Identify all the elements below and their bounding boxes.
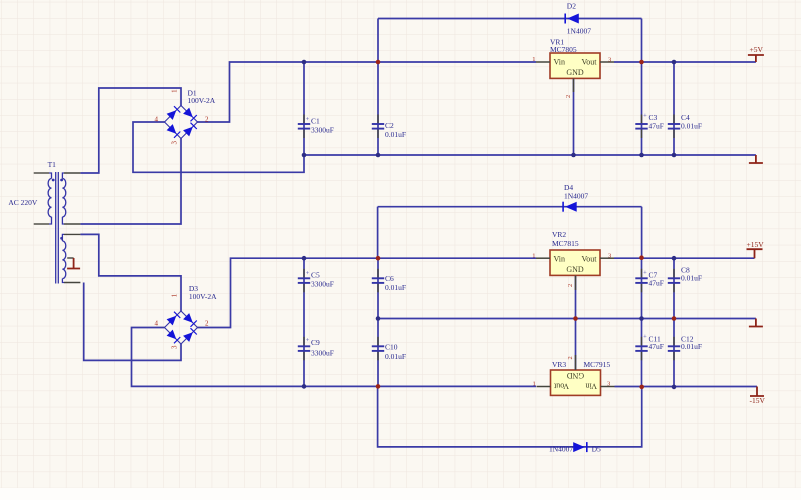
wire mid GND rail <box>378 318 756 320</box>
capacitor C7 47uF <box>635 269 647 293</box>
svg-text:+: + <box>643 112 647 119</box>
svg-text:3: 3 <box>607 380 610 387</box>
svg-text:MC7805: MC7805 <box>550 45 577 54</box>
diode D2 1N4007 <box>565 14 579 24</box>
capacitor C8 0.01uF <box>668 269 680 293</box>
svg-text:D5: D5 <box>592 444 601 453</box>
junction C7/C11 on mid GND rail <box>639 316 644 321</box>
svg-text:+5V: +5V <box>750 45 764 54</box>
diode D5 1N4007 <box>573 442 587 452</box>
wire T1 sec1 top to D1 pin1 <box>80 88 181 173</box>
svg-text:1: 1 <box>532 56 535 63</box>
svg-text:2: 2 <box>565 95 572 98</box>
capacitor C6 0.01uF <box>372 269 384 293</box>
svg-text:1N4007: 1N4007 <box>564 191 588 200</box>
pin 3 VR3 Vin lead <box>601 386 615 388</box>
pin T1 primary top lead <box>34 172 49 174</box>
wire D2 anode drop <box>377 19 379 63</box>
svg-text:0.01uF: 0.01uF <box>681 342 702 351</box>
junction C3 bottom on top GND rail <box>639 153 644 158</box>
capacitor C2 0.01uF <box>372 115 384 139</box>
svg-text:3: 3 <box>608 57 611 64</box>
svg-text:+: + <box>643 270 647 277</box>
svg-text:3: 3 <box>171 141 179 145</box>
junction C2/D2 on +5V rail <box>376 60 381 65</box>
svg-text:1N4007: 1N4007 <box>567 26 591 35</box>
power port GND bar top section <box>749 155 763 163</box>
wire C5/C9 column <box>303 258 305 386</box>
wire VR3 Vin raw -15V rail right <box>615 386 758 388</box>
wire T1 sec2 top to D3 pin1 <box>80 234 181 311</box>
svg-text:1: 1 <box>171 89 179 93</box>
capacitor C10 0.01uF <box>372 337 384 361</box>
svg-text:C10: C10 <box>385 343 398 352</box>
pin T1 sec2 bottom lead <box>64 282 80 284</box>
svg-text:47uF: 47uF <box>649 122 664 131</box>
svg-text:4: 4 <box>155 319 159 327</box>
svg-text:-15V: -15V <box>750 396 766 405</box>
wire C12 column <box>673 319 675 387</box>
junction C8/C12 on mid GND rail <box>672 316 677 321</box>
pin 2 VR2 GND lead <box>575 276 577 291</box>
power port GND bar mid section <box>749 319 763 327</box>
svg-text:0.01uF: 0.01uF <box>681 273 702 282</box>
svg-text:VR2: VR2 <box>552 230 566 239</box>
wire C7 column <box>641 258 643 319</box>
svg-text:+: + <box>306 337 310 344</box>
wire D1 pin2 to top +5V rail / VR1 Vin <box>198 62 537 122</box>
svg-text:GND: GND <box>566 265 584 274</box>
svg-text:T1: T1 <box>48 160 57 169</box>
svg-text:Vin: Vin <box>585 382 597 391</box>
wire C10 column <box>377 319 379 387</box>
junction C3/D2 on +5V rail <box>639 60 644 65</box>
svg-text:Vout: Vout <box>582 255 598 264</box>
wire C4 column <box>673 62 675 155</box>
svg-text:0.01uF: 0.01uF <box>385 130 406 139</box>
svg-text:1N4007: 1N4007 <box>549 444 573 453</box>
wire C2 column <box>377 62 379 155</box>
svg-text:VR3: VR3 <box>552 360 566 369</box>
pin 2 VR1 GND lead <box>573 78 575 92</box>
svg-text:3300uF: 3300uF <box>311 280 334 289</box>
wire D1 pin4 to GND rail <box>133 122 304 172</box>
svg-text:100V-2A: 100V-2A <box>189 292 217 301</box>
wire C1 column <box>303 62 305 155</box>
svg-text:Vin: Vin <box>554 58 566 67</box>
svg-text:47uF: 47uF <box>649 279 664 288</box>
wire C6 column <box>377 258 379 318</box>
power port +15V bar <box>747 249 763 258</box>
junction C6/C10 on mid GND rail <box>376 316 381 321</box>
pin T1 primary bottom lead <box>34 223 49 225</box>
svg-text:0.01uF: 0.01uF <box>681 122 702 131</box>
svg-text:3300uF: 3300uF <box>311 126 334 135</box>
svg-text:0.01uF: 0.01uF <box>385 352 406 361</box>
wire C8 column <box>673 258 675 318</box>
pin 2 VR3 GND lead <box>575 355 577 370</box>
power port +5V bar <box>748 55 764 62</box>
junction VR2/VR3 GND on mid GND rail <box>573 316 578 321</box>
wire VR1 Vout to +5V port <box>614 61 756 63</box>
svg-text:Vin: Vin <box>554 255 566 264</box>
transformer T1 <box>48 172 66 284</box>
svg-text:1: 1 <box>171 293 179 297</box>
svg-text:3300uF: 3300uF <box>311 348 334 357</box>
diode D4 1N4007 <box>563 202 577 212</box>
svg-text:+: + <box>643 334 647 341</box>
capacitor C4 0.01uF <box>668 115 680 139</box>
capacitor C9 3300uF <box>298 337 310 361</box>
svg-text:4: 4 <box>155 115 159 123</box>
capacitor C12 0.01uF <box>668 337 680 361</box>
wire D5 bottom loop <box>378 386 642 447</box>
junction C8 top on +15V rail <box>672 256 677 261</box>
wire D2 cathode drop <box>641 19 643 63</box>
svg-text:C1: C1 <box>311 117 320 126</box>
pin 1 VR2 Vin lead <box>536 257 550 259</box>
junction VR1 GND on top GND rail <box>571 153 576 158</box>
svg-text:D2: D2 <box>567 1 576 10</box>
wire C11 column <box>641 319 643 387</box>
wire VR2 GND to mid rail <box>575 276 577 319</box>
pin T1 sec2 top lead <box>64 233 80 235</box>
svg-text:47uF: 47uF <box>649 342 664 351</box>
svg-text:+15V: +15V <box>747 240 765 249</box>
svg-text:1: 1 <box>532 252 535 259</box>
bridge rectifier D3 <box>165 311 198 344</box>
svg-text:AC 220V: AC 220V <box>8 198 38 207</box>
svg-text:3: 3 <box>608 253 611 260</box>
capacitor C11 47uF <box>635 334 647 361</box>
bridge rectifier D1 <box>165 106 198 139</box>
wire C3 column <box>641 62 643 155</box>
junction C6/D4 on +15V rail <box>376 256 381 261</box>
junction C10/D5 on -15V rail <box>376 384 381 389</box>
junction C12 bottom on -15V output <box>672 385 677 390</box>
svg-text:MC7915: MC7915 <box>584 360 611 369</box>
junction C5 top on +15V rail <box>302 256 307 261</box>
voltage regulator VR1 MC7805 <box>550 53 600 78</box>
wire T1 sec2 bottom to D3 pin3 <box>84 283 181 361</box>
pin 3 VR2 Vout lead <box>600 257 614 259</box>
junction C9 bottom on -15V rail <box>302 384 307 389</box>
pin 1 VR3 Vout lead <box>537 386 551 388</box>
pin T1 center tap lead <box>67 257 73 259</box>
pin T1 sec1 top lead <box>64 172 80 174</box>
svg-text:C5: C5 <box>311 271 320 280</box>
wire D4 top loop <box>378 206 642 208</box>
wire D2 top loop <box>378 18 642 20</box>
svg-text:GND: GND <box>567 371 585 380</box>
pin 3 VR1 Vout lead <box>600 61 614 63</box>
junction C4 top on +5V rail <box>672 60 677 65</box>
svg-text:MC7815: MC7815 <box>552 239 579 248</box>
svg-text:Vout: Vout <box>582 58 598 67</box>
wire top GND rail <box>304 154 756 156</box>
wire VR1 GND to rail <box>573 78 575 155</box>
svg-text:C9: C9 <box>311 338 320 347</box>
capacitor C1 3300uF <box>298 115 310 139</box>
wire D4 cathode drop <box>641 207 643 258</box>
svg-text:2: 2 <box>567 356 574 359</box>
svg-text:0.01uF: 0.01uF <box>385 283 406 292</box>
svg-text:100V-2A: 100V-2A <box>188 96 216 105</box>
pin 1 VR1 Vin lead <box>536 61 550 63</box>
svg-text:C2: C2 <box>385 121 394 130</box>
svg-text:1: 1 <box>533 380 536 387</box>
junction C1 top on +5V rail <box>302 60 307 65</box>
wire T1 sec1 bottom to D1 pin3 <box>80 139 181 225</box>
ground bar at T1 center tap <box>67 258 80 269</box>
svg-text:+: + <box>306 270 310 277</box>
wire VR3 GND to mid rail <box>575 319 577 371</box>
voltage regulator VR2 MC7815 <box>550 250 600 275</box>
power port -15V bar <box>750 387 764 397</box>
junction C4 bottom on top GND rail <box>672 153 677 158</box>
capacitor C5 3300uF <box>298 269 310 293</box>
svg-text:+: + <box>306 116 310 123</box>
svg-text:C6: C6 <box>385 274 394 283</box>
wire D3 pin4 to -15V rail / VR3 Vout <box>132 328 537 387</box>
wire D3 pin2 to +15V rail / VR2 Vin <box>198 258 537 327</box>
voltage regulator VR3 MC7915 <box>551 370 601 395</box>
capacitor C3 47uF <box>635 112 647 138</box>
svg-text:2: 2 <box>567 284 574 287</box>
wire VR2 Vout to +15V port <box>614 257 755 259</box>
svg-text:2: 2 <box>205 115 209 123</box>
svg-text:3: 3 <box>171 345 179 349</box>
svg-text:2: 2 <box>205 319 209 327</box>
junction C11/D5 on -15V output <box>639 385 644 390</box>
svg-text:GND: GND <box>566 68 584 77</box>
pin T1 sec1 bottom lead <box>64 223 80 225</box>
svg-text:Vout: Vout <box>553 382 569 391</box>
junction C1 bottom on top GND rail <box>302 153 307 158</box>
junction C2 bottom on top GND rail <box>376 153 381 158</box>
wire D4 anode drop <box>377 207 379 259</box>
junction C7/D4 on +15V rail <box>639 255 644 260</box>
